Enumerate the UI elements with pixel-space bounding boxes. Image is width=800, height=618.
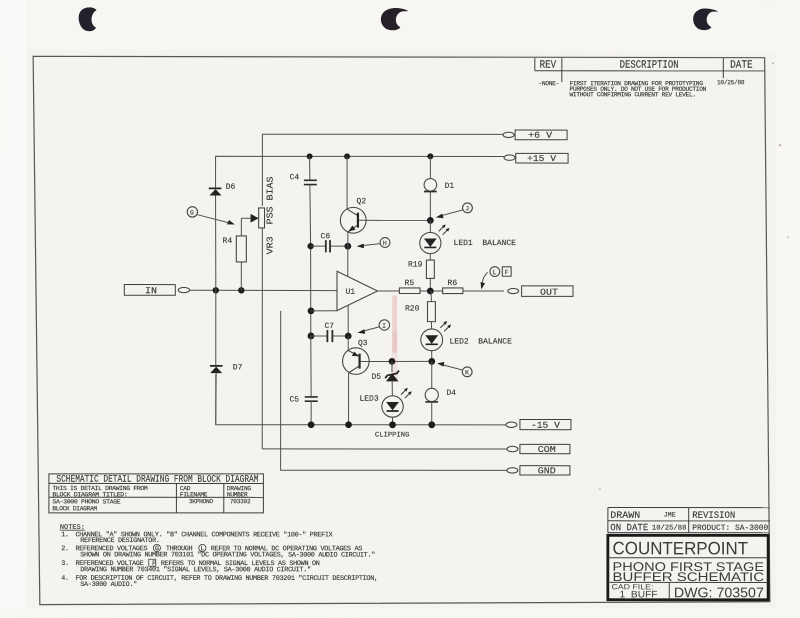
junction on +15V at C4 rail: [307, 153, 313, 159]
svg-text:R5: R5: [405, 279, 415, 288]
node junction R4 bottom: [238, 287, 244, 293]
op-amp U1: [311, 246, 399, 336]
svg-text:JME: JME: [664, 512, 676, 520]
svg-text:BLOCK DIAGRAM: BLOCK DIAGRAM: [52, 505, 97, 512]
svg-text:DWG: 703507: DWG: 703507: [674, 584, 764, 600]
node junction D5 top: [389, 358, 396, 365]
svg-text:DRAWN: DRAWN: [610, 510, 640, 521]
node junction Q2 emitter / C6: [344, 243, 351, 250]
node junction IN/D6: [213, 287, 219, 293]
junction on +15V at D1: [427, 153, 433, 159]
node junction Q3 emitter to bus: [345, 421, 352, 428]
diode D4: [425, 361, 456, 424]
svg-text:SA-3000 AUDIO.": SA-3000 AUDIO.": [80, 581, 137, 589]
node junction C7 right / Q3: [345, 333, 352, 340]
diode D1: [424, 156, 454, 220]
resistor R5: [399, 279, 442, 294]
svg-text:ON DATE: ON DATE: [610, 522, 648, 533]
svg-text:D6: D6: [226, 183, 236, 192]
hole punch 1: [79, 7, 97, 31]
title block main: [608, 535, 768, 599]
wire C4/C5 rail mid: [310, 246, 312, 336]
node I: [357, 320, 389, 334]
svg-text:REVISION: REVISION: [692, 510, 735, 521]
node junction D4 bus: [428, 421, 435, 428]
connector OUT: [508, 288, 519, 293]
svg-text:BLOCK DIAGRAM TITLED:: BLOCK DIAGRAM TITLED:: [52, 491, 127, 498]
zener diode D5: [371, 361, 399, 395]
svg-text:CLIPPING: CLIPPING: [375, 431, 410, 439]
diode D7: [210, 290, 243, 424]
svg-text:+6 V: +6 V: [528, 131, 553, 141]
svg-text:U1: U1: [346, 288, 356, 297]
capacitor C5: [289, 336, 317, 425]
node junction C6 left: [307, 243, 313, 249]
connector +15V: [504, 155, 515, 160]
svg-text:SHOWN ON DRAWING NUMBER 703101: SHOWN ON DRAWING NUMBER 703101 "DC OPERA…: [80, 551, 375, 559]
svg-text:C4: C4: [290, 173, 300, 182]
svg-text:+15 V: +15 V: [527, 154, 557, 164]
wire -15V bus: [216, 374, 506, 424]
potentiometer VR3 PSS BIAS: [251, 176, 276, 254]
svg-text:-NONE-: -NONE-: [539, 80, 559, 87]
node F: [502, 267, 511, 276]
svg-text:DESCRIPTION: DESCRIPTION: [620, 60, 679, 72]
svg-text:1.: 1.: [61, 531, 69, 539]
resistor R4: [223, 218, 251, 290]
connector GND: [507, 468, 518, 473]
hole punch 3: [693, 8, 718, 30]
svg-text:C5: C5: [289, 395, 299, 404]
svg-text:4.: 4.: [61, 575, 69, 583]
transistor Q3: [343, 336, 432, 425]
svg-text:LED2 BALANCE: LED2 BALANCE: [449, 338, 512, 347]
svg-text:703392: 703392: [230, 498, 251, 505]
node G: [187, 207, 235, 225]
node J: [436, 203, 473, 218]
LED3: [359, 388, 411, 425]
svg-text:-15 V: -15 V: [531, 421, 561, 431]
title block small table: [608, 508, 770, 533]
svg-text:Q3: Q3: [358, 339, 368, 348]
svg-text:WITHOUT CONFIRMING CURRENT REV: WITHOUT CONFIRMING CURRENT REV LEVEL.: [570, 91, 696, 98]
svg-text:PRODUCT: SA-3000: PRODUCT: SA-3000: [692, 524, 768, 533]
node junction output: [427, 288, 434, 295]
diode D6: [209, 178, 236, 290]
node junction C7 left: [308, 333, 315, 340]
svg-text:R20: R20: [405, 305, 420, 314]
resistor R6: [443, 279, 504, 294]
capacitor C4: [290, 156, 317, 246]
node junction C5 rail to -15V bus: [308, 421, 315, 428]
junction on +15V at Q2: [344, 153, 350, 159]
hole punch 2: [381, 8, 408, 30]
svg-text:DATE: DATE: [730, 60, 753, 72]
svg-text:3KPHONO: 3KPHONO: [189, 498, 213, 505]
svg-text:VR3 PSS BIAS: VR3 PSS BIAS: [266, 176, 276, 254]
svg-text:F: F: [505, 269, 509, 276]
svg-text:Q2: Q2: [357, 197, 367, 206]
svg-text:OUT: OUT: [540, 288, 559, 298]
svg-text:COUNTERPOINT: COUNTERPOINT: [613, 538, 749, 558]
scan specks: [772, 62, 774, 64]
svg-text:3.: 3.: [61, 560, 69, 568]
svg-text:D7: D7: [233, 363, 243, 372]
svg-text:10/25/88: 10/25/88: [652, 525, 687, 533]
capacitor C7: [311, 322, 348, 342]
svg-text:R6: R6: [448, 279, 458, 288]
svg-text:C6: C6: [321, 232, 331, 241]
node K: [437, 362, 472, 377]
LED1: [420, 220, 516, 260]
resistor R20: [405, 291, 435, 329]
svg-text:IN: IN: [145, 286, 157, 296]
node H: [357, 238, 390, 249]
wire +15V rail: [216, 156, 505, 178]
revision table: [535, 58, 764, 82]
svg-text:L: L: [493, 269, 497, 276]
svg-text:K: K: [465, 369, 469, 376]
LED2: [421, 321, 512, 361]
schematic detail table: [49, 474, 264, 513]
svg-text:D4: D4: [446, 389, 456, 398]
transistor Q2: [340, 156, 430, 246]
wire IN main line: [190, 289, 337, 291]
svg-text:H: H: [383, 240, 387, 247]
wire +6V rail horizontal: [261, 228, 263, 449]
wire GND line: [281, 311, 507, 471]
svg-text:REV: REV: [540, 60, 557, 72]
svg-text:I: I: [382, 323, 386, 330]
resistor R19: [408, 260, 434, 291]
svg-text:LED1 BALANCE: LED1 BALANCE: [454, 239, 517, 248]
connector IN: [124, 285, 175, 296]
connector COM: [507, 446, 518, 451]
svg-text:COM: COM: [538, 445, 556, 455]
svg-text:G: G: [190, 209, 194, 216]
svg-text:REFERENCE DESIGNATOR.: REFERENCE DESIGNATOR.: [80, 537, 159, 545]
svg-text:10/25/88: 10/25/88: [717, 79, 745, 86]
node J junction: [427, 217, 434, 224]
svg-text:2.: 2.: [61, 545, 69, 553]
connector -15V: [506, 422, 517, 427]
svg-text:D1: D1: [445, 182, 455, 191]
svg-text:R4: R4: [223, 237, 233, 246]
svg-text:C7: C7: [324, 322, 334, 331]
svg-text:GND: GND: [538, 466, 556, 476]
node L: [481, 267, 512, 290]
wire COM line: [262, 448, 507, 450]
svg-text:LED3: LED3: [359, 395, 378, 404]
node junction LED3 bus: [389, 421, 396, 428]
node junction GND/U1: [308, 307, 315, 314]
svg-text:D5: D5: [371, 373, 381, 382]
svg-text:R19: R19: [408, 261, 423, 270]
svg-text:DRAWING NUMBER 703401 "SIGNAL: DRAWING NUMBER 703401 "SIGNAL LEVELS, SA…: [80, 566, 311, 574]
capacitor C6: [311, 232, 348, 252]
svg-text:J: J: [465, 205, 469, 212]
node K junction: [428, 358, 435, 365]
connector +6V: [503, 132, 514, 137]
pink highlighter streak: [392, 295, 397, 353]
svg-text:1_BUFF: 1_BUFF: [620, 589, 658, 600]
